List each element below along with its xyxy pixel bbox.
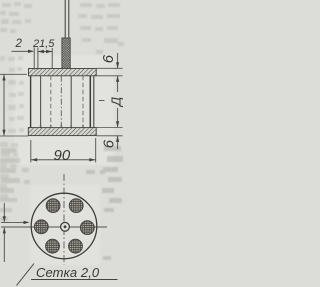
rod dashed [50, 76, 52, 128]
wire / tube at top [64, 0, 66, 39]
center hole [61, 222, 70, 231]
left mini dimension [3, 203, 5, 222]
rod end beads above bottom flange [40, 125, 84, 127]
svg-text:2: 2 [15, 38, 23, 50]
upper left line with arrow [1, 221, 28, 223]
paper background [0, 0, 125, 287]
dim 2 leader arrow [12, 50, 33, 52]
vertical centerline [63, 174, 65, 265]
centerline [60, 76, 62, 128]
rod [40, 76, 42, 128]
svg-text:6: 6 [101, 139, 118, 148]
rod [70, 76, 72, 128]
svg-text:Сетка 2,0: Сетка 2,0 [36, 265, 100, 280]
big circle [31, 193, 97, 259]
rod dashed [82, 76, 84, 128]
svg-text:6: 6 [100, 54, 117, 63]
label leader [17, 264, 35, 286]
stem (hatched bushing) [62, 38, 70, 69]
extension lines for 2 [33, 48, 35, 70]
cylinder wall right outer [93, 76, 95, 128]
90 dimension [30, 140, 32, 163]
bleed-through noise left column [0, 56, 24, 199]
bottom flange (hatched) [28, 128, 96, 136]
cylinder wall right inner [89, 76, 91, 128]
bottom 6 dimension [117, 136, 119, 149]
right dimension line with arrows: top 6 [117, 53, 119, 68]
left height dimension [0, 73, 27, 75]
right extension lines [97, 67, 123, 69]
svg-text:Д: Д [109, 97, 124, 108]
bleed-through noise right column [86, 146, 123, 260]
top flange (hatched) [29, 69, 97, 76]
horizontal centerline [1, 226, 107, 228]
label underline [31, 279, 118, 281]
mesh holes ring [80, 221, 94, 235]
bleed-through noise top-left [0, 2, 124, 54]
svg-text:90: 90 [54, 147, 71, 164]
cylinder wall left [30, 76, 32, 128]
dim 21,5 line with arrows [38, 51, 52, 53]
extension line at 21,5 right [51, 48, 53, 69]
